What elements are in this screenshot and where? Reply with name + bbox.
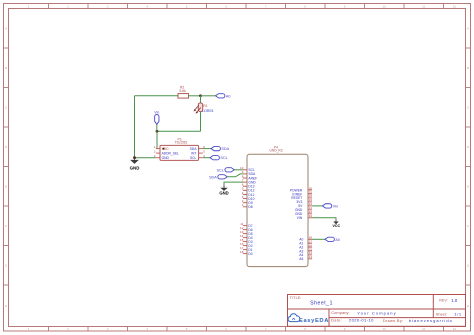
- UNO_R3 left pin 10 SCL: [240, 166, 255, 172]
- svg-text:F: F: [5, 224, 7, 228]
- UNO_R3 left pin 5 D12: [242, 187, 255, 193]
- wire R2 to node A0: [189, 95, 201, 97]
- wire UNO VIN to VCC: [312, 218, 336, 220]
- svg-text:REV:: REV:: [439, 298, 448, 302]
- svg-text:C: C: [467, 105, 469, 109]
- svg-text:TSL2561: TSL2561: [175, 141, 188, 145]
- wire trunk to TSL GND pin: [135, 157, 156, 159]
- svg-text:D0: D0: [248, 252, 252, 256]
- svg-text:G: G: [467, 263, 469, 267]
- TSL2561 left pin 1 VDD: [154, 145, 169, 151]
- svg-text:R1: R1: [203, 104, 207, 108]
- UNO_R3 left pin 11 D7: [240, 222, 253, 228]
- TSL2561 left pin 2 ADDR_SEL: [154, 149, 179, 155]
- wire TSL SDA to flag: [203, 148, 211, 150]
- svg-text:E: E: [467, 184, 469, 188]
- wire VIN trunk vertical: [134, 96, 136, 158]
- svg-text:Date:: Date:: [331, 318, 342, 323]
- svg-text:Company:: Company:: [331, 310, 350, 315]
- svg-text:A0: A0: [226, 94, 231, 98]
- UNO_R3 left pin 17 D1: [240, 246, 253, 252]
- wire junction down to photoresistor: [200, 96, 202, 103]
- wire Vin flag to node: [156, 124, 158, 131]
- UNO_R3 right pin 20 GND: [295, 210, 312, 216]
- UNO_R3 right pin 24 RESET: [291, 194, 312, 200]
- svg-text:A5: A5: [299, 257, 303, 261]
- UNO_R3 left pin 12 D6: [240, 226, 253, 232]
- wire TSL SCL to flag: [203, 157, 210, 159]
- svg-text:GND: GND: [219, 190, 228, 195]
- ground GND (left): [130, 158, 140, 171]
- TSL2561 right pin 5 INT: [191, 149, 205, 155]
- IC P4 UNO_R3: [247, 145, 308, 266]
- wire photoresistor down: [200, 112, 202, 132]
- UNO_R3 left pin 9 SDA: [242, 170, 256, 176]
- pin1 connection dot: [163, 148, 165, 150]
- svg-text:Your Company: Your Company: [357, 310, 397, 315]
- TSL2561 left pin 3 GND: [154, 154, 170, 160]
- wire junction to A0 flag: [201, 95, 216, 97]
- svg-text:bianevesgarrido: bianevesgarrido: [409, 318, 453, 323]
- svg-text:INT: INT: [191, 151, 196, 155]
- svg-text:SCL: SCL: [217, 168, 224, 172]
- svg-text:D8: D8: [248, 205, 252, 209]
- junction node divider/A0: [199, 94, 202, 97]
- svg-text:18: 18: [240, 250, 244, 254]
- svg-text:2020-01-10: 2020-01-10: [349, 318, 374, 323]
- wire SCL flag to UNO: [234, 169, 243, 171]
- junction Vin node: [156, 130, 159, 133]
- svg-text:Sheet_1: Sheet_1: [310, 300, 333, 306]
- svg-text:SCL: SCL: [190, 156, 197, 160]
- svg-text:11: 11: [422, 4, 425, 8]
- svg-text:A: A: [5, 26, 7, 30]
- svg-text:C: C: [5, 105, 7, 109]
- svg-text:1/1: 1/1: [454, 312, 462, 317]
- wire horizontal to Vin node: [157, 130, 201, 132]
- wire node down to TSL2561 VDD pin: [156, 131, 158, 148]
- net flag SCL (TSL side): [210, 156, 228, 161]
- svg-text:1.0: 1.0: [451, 298, 458, 303]
- svg-text:12: 12: [453, 4, 457, 8]
- svg-text:B: B: [5, 66, 7, 70]
- svg-text:13: 13: [309, 255, 313, 259]
- UNO_R3 right pin 23 3V3: [296, 198, 312, 204]
- net flag Vin (UNO side): [322, 204, 338, 209]
- UNO_R3 right pin 21 GND: [295, 206, 312, 212]
- EasyEDA logo: [288, 314, 329, 324]
- net flag SDA (UNO side): [209, 175, 227, 180]
- svg-text:A: A: [467, 26, 469, 30]
- UNO_R3 left pin 1 D8: [242, 203, 253, 209]
- UNO_R3 left pin 13 D5: [240, 230, 253, 236]
- svg-text:5.6k: 5.6k: [180, 89, 187, 93]
- svg-text:D: D: [467, 145, 469, 149]
- svg-text:10: 10: [383, 327, 387, 331]
- net flag A0 (top): [216, 94, 231, 99]
- svg-text:LDR03: LDR03: [202, 109, 213, 113]
- UNO_R3 right pin 14 A4: [299, 251, 312, 257]
- svg-text:Drawn By:: Drawn By:: [383, 318, 404, 323]
- UNO_R3 left pin 8 AREF: [242, 174, 257, 180]
- UNO_R3 left pin 15 D3: [240, 238, 253, 244]
- junction GND node: [133, 156, 136, 159]
- svg-text:GND: GND: [162, 156, 170, 160]
- net flag SDA (TSL side): [211, 146, 230, 151]
- wire SDA flag to UNO: [227, 174, 243, 177]
- UNO_R3 left pin 7 GND: [242, 178, 257, 184]
- svg-text:11: 11: [422, 327, 425, 331]
- svg-text:UNO_R3: UNO_R3: [270, 149, 283, 153]
- title block: [288, 295, 466, 327]
- svg-text:H: H: [5, 304, 7, 308]
- UNO_R3 left pin 16 D2: [240, 242, 253, 248]
- svg-text:Sheet:: Sheet:: [436, 312, 447, 316]
- svg-text:SDA: SDA: [221, 147, 229, 151]
- svg-text:Vin: Vin: [333, 204, 338, 208]
- svg-text:H: H: [467, 304, 469, 308]
- svg-text:F: F: [467, 224, 469, 228]
- TSL2561 right pin 4 SCL: [190, 154, 205, 160]
- UNO_R3 right pin 18 A0: [299, 236, 312, 242]
- ground GND (UNO): [219, 186, 228, 196]
- UNO_R3 left pin 3 D10: [242, 195, 255, 201]
- UNO_R3 right pin 25 IOREF: [292, 190, 312, 196]
- UNO_R3 left pin 6 D13: [242, 183, 255, 189]
- UNO_R3 right pin 16 A2: [299, 243, 312, 249]
- UNO_R3 left pin 2 D9: [242, 199, 253, 205]
- wire UNO A0 to flag: [312, 238, 325, 240]
- power flag VCC: [333, 220, 341, 228]
- svg-text:D: D: [5, 145, 7, 149]
- UNO_R3 right pin 19 VIN: [297, 214, 313, 220]
- svg-text:G: G: [5, 263, 7, 267]
- svg-text:B: B: [467, 66, 469, 70]
- wire UNO 5V to Vin flag: [312, 205, 322, 207]
- net flag Vin (left): [154, 110, 159, 124]
- svg-text:GND: GND: [130, 166, 140, 171]
- UNO_R3 right pin 17 A1: [299, 240, 312, 246]
- svg-text:SCL: SCL: [220, 156, 227, 160]
- svg-text:SDA: SDA: [190, 147, 198, 151]
- UNO_R3 right pin 26 POWER: [290, 186, 313, 192]
- svg-text:12: 12: [453, 327, 457, 331]
- UNO_R3 left pin 14 D4: [240, 234, 253, 240]
- TSL2561 right pin 6 SDA: [190, 145, 206, 151]
- UNO_R3 right pin 15 A3: [299, 247, 312, 253]
- wire top horizontal to R2: [135, 95, 179, 97]
- svg-text:E: E: [5, 184, 7, 188]
- svg-text:SDA: SDA: [209, 175, 217, 179]
- IC P3 TSL2561: [160, 138, 199, 161]
- svg-text:EasyEDA: EasyEDA: [299, 318, 329, 324]
- svg-text:A0: A0: [335, 238, 340, 242]
- svg-text:VIN: VIN: [297, 216, 303, 220]
- net flag SCL (UNO side): [217, 168, 235, 173]
- UNO_R3 left pin 4 D11: [242, 191, 255, 197]
- resistor R2 5.6k: [178, 86, 189, 99]
- svg-text:10: 10: [383, 4, 387, 8]
- svg-text:ADDR_SEL: ADDR_SEL: [162, 151, 180, 155]
- svg-text:VCC: VCC: [333, 224, 341, 228]
- svg-text:Vin: Vin: [154, 110, 159, 114]
- UNO_R3 right pin 22 5V: [298, 202, 312, 208]
- svg-text:19: 19: [309, 214, 313, 218]
- svg-text:TITLE:: TITLE:: [290, 296, 302, 300]
- net flag A0 (UNO side): [325, 237, 340, 242]
- UNO_R3 left pin 18 D0: [240, 250, 253, 256]
- UNO_R3 right pin 13 A5: [299, 255, 312, 261]
- photoresistor R1 LDR03: [194, 103, 214, 114]
- wire UNO GND pin left: [224, 182, 243, 188]
